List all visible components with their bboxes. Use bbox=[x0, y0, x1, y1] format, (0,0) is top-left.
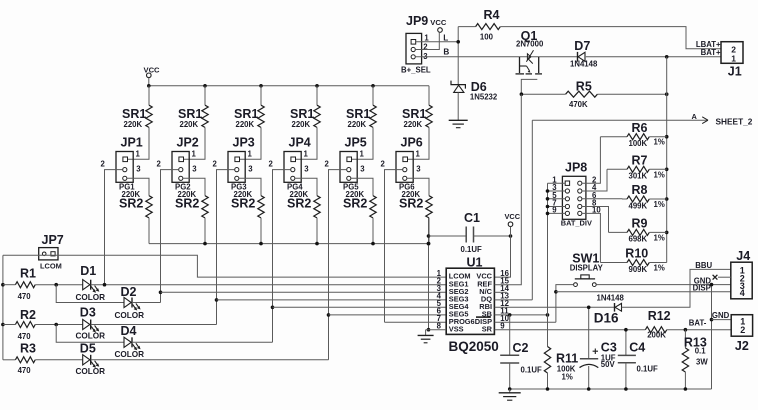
svg-text:470: 470 bbox=[18, 366, 32, 375]
svg-text:R1: R1 bbox=[20, 267, 36, 281]
svg-text:470: 470 bbox=[18, 332, 32, 341]
svg-text:SR1: SR1 bbox=[290, 107, 314, 121]
wire SEG3 row to U1 pin4 bbox=[217, 299, 447, 301]
svg-text:3W: 3W bbox=[696, 358, 708, 367]
svg-text:C3: C3 bbox=[601, 340, 617, 354]
jumper JP4 bbox=[284, 152, 301, 183]
capacitor C2 0.1UF bbox=[509, 315, 511, 355]
svg-text:909K: 909K bbox=[629, 265, 648, 274]
svg-text:BQ2050: BQ2050 bbox=[449, 339, 499, 354]
resistor R13 0.1 3W bbox=[684, 330, 686, 348]
wire SR1 to JP4 pin1 bbox=[296, 127, 317, 159]
svg-text:0.1UF: 0.1UF bbox=[521, 366, 542, 375]
svg-text:50V: 50V bbox=[601, 360, 616, 369]
svg-text:1: 1 bbox=[416, 150, 421, 159]
svg-text:2: 2 bbox=[101, 160, 106, 169]
resistor R11 100K 1% bbox=[547, 315, 549, 347]
wire D6 to ground bbox=[457, 92, 459, 120]
off-page arrow A to SHEET_2 bbox=[532, 119, 707, 121]
svg-text:100: 100 bbox=[480, 32, 494, 41]
wire SR1 to JP1 pin1 bbox=[128, 127, 149, 159]
svg-text:SR2: SR2 bbox=[287, 196, 311, 210]
LED D2 COLOR bbox=[124, 297, 131, 307]
wire U1 pin14 N/C stub bbox=[495, 291, 507, 293]
connector JP8 BAT_DIV bbox=[562, 176, 586, 219]
svg-text:1N4148: 1N4148 bbox=[597, 293, 625, 302]
svg-text:1%: 1% bbox=[654, 170, 665, 179]
resistor SR2 220K (column 4) bbox=[314, 196, 320, 218]
resistor SR1 220K (column 2) bbox=[202, 105, 208, 127]
wire SR1 to JP3 pin1 bbox=[240, 127, 261, 159]
svg-text:1: 1 bbox=[424, 33, 429, 42]
wire SEG5 row to U1 pin6 bbox=[329, 314, 447, 316]
svg-text:SR2: SR2 bbox=[231, 196, 255, 210]
wire D3 cathode to JP3 column bbox=[91, 324, 217, 326]
resistor R4 100 bbox=[458, 26, 475, 28]
svg-text:JP3: JP3 bbox=[233, 136, 255, 150]
svg-text:3: 3 bbox=[192, 165, 197, 174]
LED D1 COLOR bbox=[83, 280, 90, 290]
wire JP8 pin4 up to R7 bbox=[582, 169, 607, 191]
svg-text:SR2: SR2 bbox=[343, 196, 367, 210]
svg-text:1%: 1% bbox=[654, 233, 665, 242]
svg-text:COLOR: COLOR bbox=[115, 350, 145, 359]
wire branch to D4 bbox=[56, 325, 124, 343]
svg-text:BBU: BBU bbox=[695, 261, 712, 270]
svg-text:200K: 200K bbox=[647, 331, 666, 340]
connector J4 bbox=[731, 262, 752, 299]
svg-text:B+_SEL: B+_SEL bbox=[401, 65, 431, 74]
svg-text:SR2: SR2 bbox=[399, 196, 423, 210]
wire U1 pin9 SR row to R12/J2 bbox=[495, 329, 646, 331]
svg-text:3: 3 bbox=[416, 165, 421, 174]
wire SEG4 row to U1 pin5 bbox=[273, 306, 447, 308]
power flag VCC at C1 bbox=[508, 222, 513, 227]
connector J2 bbox=[731, 315, 752, 337]
svg-text:JP4: JP4 bbox=[289, 136, 311, 150]
resistor SR1 220K (column 1) bbox=[146, 105, 152, 127]
svg-text:D1: D1 bbox=[80, 264, 96, 278]
svg-text:L: L bbox=[443, 34, 448, 43]
svg-text:1N5232: 1N5232 bbox=[470, 93, 498, 102]
IC U1 BQ2050 bbox=[446, 268, 494, 334]
wire BAT+ vertical bus to divider bbox=[666, 57, 668, 263]
svg-text:JP6: JP6 bbox=[401, 136, 423, 150]
wire JP9 pin1 to R4 node bbox=[416, 41, 458, 43]
wire U1 pin10 DISP row to SW1 bbox=[495, 321, 556, 323]
svg-text:D4: D4 bbox=[121, 324, 137, 338]
svg-text:SR: SR bbox=[482, 324, 493, 333]
wire U1 VSS to ground bbox=[426, 329, 447, 331]
svg-text:1: 1 bbox=[248, 150, 253, 159]
wire U1 pin11 SB row bbox=[495, 314, 548, 316]
JP8 pins row 0 bbox=[565, 181, 569, 185]
wire VCC bus drop column 6 bbox=[428, 86, 430, 105]
svg-text:1%: 1% bbox=[654, 264, 665, 273]
resistor SR2 220K (column 2) bbox=[202, 196, 208, 218]
resistor SR2 220K (column 1) bbox=[146, 196, 152, 218]
wire JP2 pin3 to SR2 bbox=[184, 178, 206, 195]
svg-text:220K: 220K bbox=[124, 120, 143, 129]
jumper JP1 bbox=[116, 152, 133, 183]
resistor SR1 220K (column 5) bbox=[370, 105, 376, 127]
svg-text:COLOR: COLOR bbox=[76, 367, 106, 376]
wire LCOM/VSS column 6 vertical bbox=[428, 218, 430, 330]
svg-text:D3: D3 bbox=[80, 305, 96, 319]
wire U1 pin15 REF up to Q1 gate bbox=[495, 94, 522, 285]
svg-text:3: 3 bbox=[360, 165, 365, 174]
capacitor C3 1UF 50V (electrolytic) bbox=[588, 307, 590, 359]
power flag VCC at JP9 bbox=[438, 28, 443, 33]
svg-text:3: 3 bbox=[136, 165, 141, 174]
wire R4 to J1 pin2 (LBAT+) bbox=[500, 27, 721, 49]
svg-text:0.1UF: 0.1UF bbox=[461, 245, 482, 254]
resistor SR2 220K (column 6) bbox=[426, 196, 432, 218]
wire D5 cathode to JP5 column bbox=[91, 359, 329, 361]
svg-text:R3: R3 bbox=[20, 341, 36, 355]
svg-text:8: 8 bbox=[437, 322, 442, 331]
LED D4 COLOR bbox=[124, 337, 131, 347]
svg-text:2: 2 bbox=[325, 160, 330, 169]
svg-text:SR1: SR1 bbox=[178, 107, 202, 121]
wire bottom VSS rail bbox=[510, 388, 712, 390]
resistor SR1 220K (column 6) bbox=[426, 105, 432, 127]
svg-text:J2: J2 bbox=[735, 339, 749, 353]
svg-text:1%: 1% bbox=[654, 200, 665, 209]
jumper JP3 bbox=[228, 152, 245, 183]
wire left rail bbox=[2, 255, 4, 359]
svg-text:R6: R6 bbox=[632, 121, 648, 135]
resistor SR2 220K (column 5) bbox=[370, 196, 376, 218]
svg-text:BAT-: BAT- bbox=[689, 318, 707, 327]
wire VCC bus drop column 1 bbox=[148, 86, 150, 105]
svg-text:698K: 698K bbox=[629, 235, 648, 244]
JP8 pins row 1 bbox=[565, 189, 569, 193]
svg-text:R9: R9 bbox=[632, 217, 648, 231]
wire JP1 pin3 to SR2 bbox=[128, 178, 150, 195]
wire SR2 common bus (VSS net) bbox=[149, 243, 429, 245]
wire JP3 pin3 to SR2 bbox=[240, 178, 262, 195]
svg-text:SR1: SR1 bbox=[402, 107, 426, 121]
jumper JP5 bbox=[340, 152, 357, 183]
LED D3 COLOR bbox=[83, 319, 90, 329]
wire SR2 bottom lead column 2 bbox=[204, 218, 206, 244]
svg-text:4: 4 bbox=[740, 288, 745, 298]
svg-text:BAT_DIV: BAT_DIV bbox=[561, 218, 592, 227]
ground (U1 VSS) bbox=[425, 330, 427, 336]
JP8 pins row 2 bbox=[565, 197, 569, 201]
resistor R1 470 bbox=[15, 282, 35, 288]
svg-text:R8: R8 bbox=[632, 183, 648, 197]
svg-text:VCC: VCC bbox=[430, 18, 447, 27]
wire VCC bus drop column 4 bbox=[316, 86, 318, 105]
wire JP9 pin3 (B line) to Q1/D7/J1 bbox=[416, 56, 578, 58]
svg-text:SR2: SR2 bbox=[175, 196, 199, 210]
svg-text:220K: 220K bbox=[404, 120, 423, 129]
svg-text:COLOR: COLOR bbox=[76, 293, 106, 302]
wire SR2 bottom lead column 1 bbox=[148, 218, 150, 244]
wire JP8 pin10 down to R10 bbox=[582, 213, 600, 262]
connector JP7 LCOM bbox=[39, 248, 58, 260]
jumper JP6 bbox=[396, 152, 413, 183]
svg-text:1: 1 bbox=[192, 150, 197, 159]
svg-text:470K: 470K bbox=[569, 100, 588, 109]
DISP active-low overbar bbox=[476, 316, 491, 318]
svg-text:COLOR: COLOR bbox=[115, 311, 145, 320]
resistor R12 200K bbox=[645, 327, 666, 333]
svg-text:D5: D5 bbox=[80, 341, 96, 355]
svg-text:D2: D2 bbox=[121, 285, 137, 299]
svg-text:1: 1 bbox=[304, 150, 309, 159]
zener diode D6 1N5232 bbox=[451, 81, 465, 89]
resistor R5 470K bbox=[521, 93, 565, 95]
svg-text:R10: R10 bbox=[625, 247, 648, 261]
svg-text:220K: 220K bbox=[348, 120, 367, 129]
svg-text:2: 2 bbox=[213, 160, 218, 169]
svg-text:220K: 220K bbox=[180, 120, 199, 129]
wire VCC bus drop column 5 bbox=[372, 86, 374, 105]
svg-text:JP9: JP9 bbox=[406, 14, 428, 28]
wire D4 cathode to JP4 column bbox=[132, 341, 273, 343]
svg-text:2: 2 bbox=[381, 160, 386, 169]
diode D16 1N4148 bbox=[614, 303, 616, 312]
svg-text:VCC: VCC bbox=[144, 65, 161, 74]
capacitor C4 0.1UF bbox=[625, 330, 627, 356]
wire D2 cathode to JP2 column bbox=[132, 302, 161, 304]
resistor R9 698K 1% bbox=[609, 231, 628, 233]
svg-text:R12: R12 bbox=[648, 309, 671, 323]
resistor R10 909K 1% bbox=[600, 262, 627, 264]
svg-text:220K: 220K bbox=[236, 120, 255, 129]
wire JP4 pin2 vertical bbox=[273, 170, 291, 343]
wire GND net J4 pin3 to J2 pin1 to rail bbox=[711, 285, 713, 389]
no-connect X on J4 pin2 bbox=[718, 276, 731, 278]
svg-text:220K: 220K bbox=[292, 120, 311, 129]
resistor R6 100K 1% bbox=[600, 136, 627, 138]
ground (D6) bbox=[449, 119, 468, 121]
wire PROG6 row to U1 pin7 bbox=[385, 321, 447, 323]
svg-text:R4: R4 bbox=[484, 8, 500, 22]
wire SR1 to JP2 pin1 bbox=[184, 127, 205, 159]
wire VCC to U1 pin16 bbox=[495, 236, 511, 277]
svg-text:SR1: SR1 bbox=[346, 107, 370, 121]
svg-text:JP7: JP7 bbox=[42, 233, 64, 247]
wire R4 node down to D6 bbox=[457, 27, 459, 85]
wire JP6 pin2 vertical bbox=[385, 170, 403, 323]
resistor R8 499K 1% bbox=[622, 198, 627, 200]
diode D7 1N4148 bbox=[577, 52, 579, 62]
wire VCC bus to SR1 columns bbox=[149, 85, 429, 87]
svg-text:JP1: JP1 bbox=[121, 136, 143, 150]
wire JP5 pin2 vertical bbox=[329, 170, 347, 360]
svg-text:2: 2 bbox=[269, 160, 274, 169]
svg-text:GND: GND bbox=[712, 311, 730, 320]
wire SR1 to JP6 pin1 bbox=[408, 127, 429, 159]
wire JP8 pin6 to R8 bbox=[582, 198, 622, 200]
svg-text:VCC: VCC bbox=[505, 212, 521, 221]
svg-text:1%: 1% bbox=[654, 138, 665, 147]
ground (bottom rail) bbox=[509, 389, 511, 393]
wire LCOM: left rail, JP7 row, to U1 pin1 bbox=[3, 255, 446, 277]
wire branch to D2 bbox=[56, 285, 124, 303]
wire SR2 bottom lead column 5 bbox=[372, 218, 374, 244]
svg-text:SHEET_2: SHEET_2 bbox=[716, 117, 753, 127]
svg-text:301K: 301K bbox=[629, 172, 648, 181]
svg-text:C4: C4 bbox=[629, 340, 645, 354]
wire SR1 to JP5 pin1 bbox=[352, 127, 373, 159]
svg-text:2: 2 bbox=[423, 43, 428, 52]
resistor R2 470 bbox=[15, 322, 35, 328]
svg-text:DISPLAY: DISPLAY bbox=[570, 263, 604, 272]
resistor SR1 220K (column 3) bbox=[258, 105, 264, 127]
svg-text:JP5: JP5 bbox=[345, 136, 367, 150]
svg-text:U1: U1 bbox=[467, 256, 483, 270]
resistor R3 470 bbox=[15, 357, 35, 363]
wire SW1 left to DISP net bbox=[556, 285, 574, 323]
wire SR2 bottom lead column 3 bbox=[260, 218, 262, 244]
wire JP3 pin2 vertical bbox=[217, 170, 235, 325]
svg-text:D16: D16 bbox=[594, 310, 619, 325]
capacitor C1 0.1UF bbox=[429, 235, 467, 237]
svg-text:499K: 499K bbox=[629, 201, 648, 210]
svg-text:100K: 100K bbox=[629, 139, 648, 148]
svg-text:1: 1 bbox=[731, 53, 736, 63]
svg-text:9: 9 bbox=[500, 322, 505, 331]
wire VCC bus drop column 3 bbox=[260, 86, 262, 105]
wire JP5 pin3 to SR2 bbox=[352, 178, 374, 195]
svg-text:JP2: JP2 bbox=[177, 136, 199, 150]
svg-text:LCOM: LCOM bbox=[40, 261, 62, 270]
svg-text:C2: C2 bbox=[513, 341, 529, 355]
wire JP4 pin3 to SR2 bbox=[296, 178, 318, 195]
svg-text:2N7000: 2N7000 bbox=[516, 40, 544, 49]
svg-text:1: 1 bbox=[360, 150, 365, 159]
resistor R7 301K 1% bbox=[607, 168, 627, 170]
svg-text:DISP: DISP bbox=[693, 283, 711, 292]
svg-text:2: 2 bbox=[740, 325, 745, 335]
svg-text:2: 2 bbox=[157, 160, 162, 169]
wire JP1 pin2 vertical bbox=[105, 170, 123, 285]
svg-text:J4: J4 bbox=[736, 249, 750, 263]
wire JP8 pin8 down to R9 bbox=[582, 207, 609, 233]
wire JP8 pin2 up to R6 bbox=[582, 137, 600, 184]
svg-text:1: 1 bbox=[136, 150, 141, 159]
resistor SR2 220K (column 3) bbox=[258, 196, 264, 218]
svg-text:0.1UF: 0.1UF bbox=[637, 364, 658, 373]
svg-text:SR1: SR1 bbox=[122, 107, 146, 121]
svg-text:1%: 1% bbox=[562, 373, 573, 382]
wire U1 pin13 DQ stub bbox=[495, 299, 533, 301]
wire JP9 pin2 to VCC flag bbox=[416, 32, 440, 49]
svg-text:0.1: 0.1 bbox=[695, 347, 707, 356]
power flag VCC (LED column bus) bbox=[147, 73, 152, 78]
wire Q1 gate to REF/R5 node bbox=[521, 79, 537, 94]
svg-text:JP8: JP8 bbox=[565, 161, 587, 175]
svg-text:J1: J1 bbox=[728, 65, 742, 79]
wire DQ vertical to sheet arrow bbox=[531, 120, 533, 300]
svg-text:R2: R2 bbox=[20, 308, 36, 322]
svg-text:R5: R5 bbox=[576, 80, 592, 94]
wire SR2 bottom lead column 6 bbox=[428, 218, 430, 244]
svg-text:A: A bbox=[692, 112, 698, 121]
wire JP2 pin2 vertical bbox=[161, 170, 179, 303]
svg-text:SR2: SR2 bbox=[119, 196, 143, 210]
svg-text:R7: R7 bbox=[632, 154, 648, 168]
svg-text:SR1: SR1 bbox=[234, 107, 258, 121]
svg-text:VSS: VSS bbox=[449, 324, 464, 333]
wire VCC bus drop column 2 bbox=[204, 86, 206, 105]
svg-text:1N4148: 1N4148 bbox=[570, 59, 598, 68]
svg-text:D7: D7 bbox=[574, 39, 590, 53]
JP8 pins row 3 bbox=[565, 204, 569, 208]
svg-text:COLOR: COLOR bbox=[76, 332, 106, 341]
svg-text:470: 470 bbox=[18, 292, 32, 301]
LED D5 COLOR bbox=[83, 355, 90, 365]
wire SW1 right to J4 pin3 GND bbox=[596, 284, 731, 286]
svg-text:B: B bbox=[443, 48, 449, 57]
connector JP9 B+_SEL bbox=[406, 33, 422, 64]
wire JP8 left bus to SB bbox=[547, 183, 549, 315]
jumper JP2 bbox=[172, 152, 189, 183]
svg-text:BAT+: BAT+ bbox=[701, 48, 721, 57]
svg-text:3: 3 bbox=[304, 165, 309, 174]
resistor SR1 220K (column 4) bbox=[314, 105, 320, 127]
wire DISP row to J4 pin4 bbox=[556, 291, 731, 293]
wire SR2 bottom lead column 4 bbox=[316, 218, 318, 244]
svg-text:C1: C1 bbox=[464, 211, 480, 225]
wire JP6 pin3 to SR2 bbox=[408, 178, 430, 195]
JP8 pins row 4 bbox=[565, 211, 569, 215]
wire D16 anode to J4 pin1 BBU bbox=[622, 269, 731, 307]
wire SEG2 row to U1 pin3 bbox=[161, 291, 447, 293]
svg-text:3: 3 bbox=[248, 165, 253, 174]
wire U1 pin12 RBI row to D16 bbox=[495, 306, 615, 308]
connector J1 bbox=[721, 42, 743, 64]
svg-text:R11: R11 bbox=[556, 351, 578, 365]
wire SEG1 row D1 to U1 pin2 bbox=[91, 284, 447, 286]
